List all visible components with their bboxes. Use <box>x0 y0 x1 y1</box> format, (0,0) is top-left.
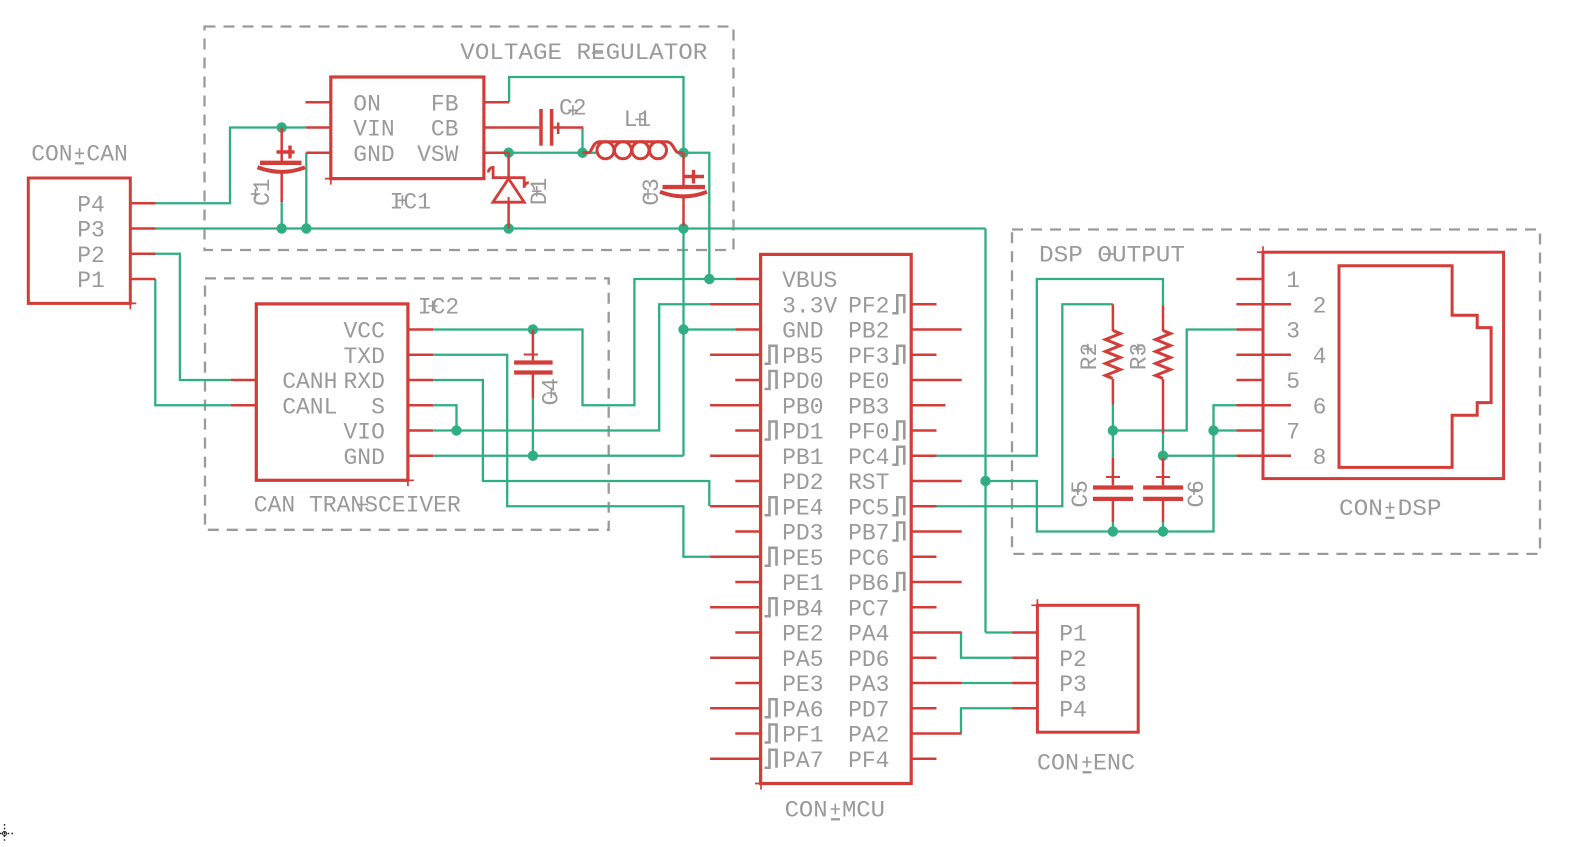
svg-text:VCC: VCC <box>343 319 384 345</box>
svg-text:PB6: PB6 <box>848 571 889 597</box>
pin CON_MCU PF0 <box>911 429 936 432</box>
pin CON_DSP 6 <box>1236 404 1291 407</box>
wire C6 bottom lead <box>1162 522 1164 532</box>
pin CON_DSP 4 <box>1236 354 1291 357</box>
svg-text:P1: P1 <box>77 268 105 294</box>
wire CANH net: CON-CAN P2 to IC2 CANH <box>156 254 231 380</box>
pin CON_MCU PB1 <box>710 455 761 458</box>
junction DSPA R2/C5 <box>1108 425 1118 435</box>
connector CON_DSP jack outline <box>1339 266 1491 468</box>
svg-text:2: 2 <box>1313 293 1327 319</box>
pin CON_DSP 3 <box>1236 328 1263 331</box>
pin CON_MCU PF3 <box>911 354 936 357</box>
pin CON_MCU PF1 <box>735 732 760 735</box>
pin CON_MCU PA7 <box>710 758 761 761</box>
svg-text:S: S <box>371 394 385 420</box>
junction VBUS/C4 <box>528 324 538 334</box>
op-amp IC1 regulator box <box>331 77 484 179</box>
svg-text:PC4: PC4 <box>848 445 889 471</box>
wire PC5 net: MCU PC5 to R2 top <box>937 304 1113 506</box>
pin CON_MCU PB2 <box>911 328 962 331</box>
pin IC2 TXD <box>408 354 433 357</box>
svg-text:GND: GND <box>782 319 823 345</box>
wire FB net: IC1 FB loop to L1 output <box>509 77 683 153</box>
pin CON_MCU PA6 <box>710 707 761 710</box>
svg-text:P1: P1 <box>1059 622 1087 648</box>
svg-text:PD3: PD3 <box>782 521 823 547</box>
svg-text:CANH: CANH <box>282 369 337 395</box>
pin IC1 VIN <box>306 126 331 129</box>
svg-text:P3: P3 <box>1059 672 1087 698</box>
junction DSPB R3/C6 <box>1158 451 1168 461</box>
pin CON_MCU PE1 <box>735 581 760 584</box>
wire DSPB net: R3 bottom / C6 / RJ45 pin8 <box>1162 433 1164 458</box>
svg-text:PA6: PA6 <box>782 697 823 723</box>
pin CON_MCU PA5 <box>710 657 761 660</box>
svg-text:PF1: PF1 <box>782 723 823 749</box>
svg-text:VIN: VIN <box>353 117 394 143</box>
capacitor C6 <box>1162 458 1165 485</box>
sheet frame origin cross <box>0 824 13 843</box>
wire ENC P2 net: MCU PA4 <box>961 633 1012 658</box>
svg-text:PC7: PC7 <box>848 596 889 622</box>
voltage regulator dashed frame <box>205 27 734 251</box>
wire ENC P4 net: MCU PA2 <box>961 708 1012 733</box>
svg-text:RXD: RXD <box>343 369 384 395</box>
pin IC2 RXD <box>408 379 433 382</box>
pin CON_ENC P2 <box>1012 657 1037 660</box>
svg-text:VOLTAGE REGULATOR: VOLTAGE REGULATOR <box>460 40 707 66</box>
pin IC1 FB <box>484 101 509 104</box>
pin CON_MCU VBUS <box>735 278 760 281</box>
svg-text:PD0: PD0 <box>782 369 823 395</box>
dsp output dashed frame <box>1012 230 1540 554</box>
svg-text:PB4: PB4 <box>782 596 823 622</box>
wire CANL net: CON-CAN P1 to IC2 CANL <box>155 279 231 405</box>
junction S/VIO <box>451 425 461 435</box>
wire C4 net segments <box>532 399 534 456</box>
pin CON_MCU PD7 <box>911 707 936 710</box>
svg-text:FB: FB <box>431 91 459 117</box>
wire PC4 net: MCU PC4 to R3 top <box>937 279 1164 456</box>
svg-text:4: 4 <box>1313 344 1327 370</box>
op-amp IC2 transceiver box <box>256 304 408 480</box>
junction GND/DSP branch <box>980 476 990 486</box>
svg-text:P3: P3 <box>77 218 105 244</box>
pin CON_ENC P1 <box>1012 631 1037 634</box>
junction VSW/C2 <box>577 148 587 158</box>
connector CON_MCU box <box>761 254 912 783</box>
resistor R2 <box>1112 304 1115 331</box>
wire GND net: MCU GND pin <box>684 328 736 330</box>
pin CON_MCU PE5 <box>710 556 761 559</box>
svg-text:PB7: PB7 <box>848 521 889 547</box>
pin IC1 ON <box>306 101 331 104</box>
svg-text:PE1: PE1 <box>782 571 823 597</box>
pin CON_MCU PA2 <box>911 732 962 735</box>
svg-text:CANL: CANL <box>282 394 337 420</box>
svg-text:PA4: PA4 <box>848 622 889 648</box>
svg-text:PB2: PB2 <box>848 319 889 345</box>
svg-text:8: 8 <box>1313 445 1327 471</box>
svg-text:VSW: VSW <box>417 142 459 168</box>
wire GND net: branch to DSP caps <box>986 405 1237 531</box>
inductor L1 <box>583 142 684 153</box>
pin CON_MCU PB0 <box>710 404 761 407</box>
pin CON_ENC P4 <box>1012 707 1037 710</box>
pin CON_MCU PC5 <box>911 505 936 508</box>
wire GND net: vertical down right of MCU <box>984 229 986 633</box>
pin IC2 VCC <box>408 328 433 331</box>
pin CON_MCU GND <box>735 328 760 331</box>
svg-text:C5: C5 <box>1068 480 1094 508</box>
svg-text:TXD: TXD <box>343 344 384 370</box>
svg-text:PF0: PF0 <box>848 420 889 446</box>
svg-text:PE2: PE2 <box>782 622 823 648</box>
connector CON_CAN box <box>28 178 130 303</box>
pin CON_DSP 1 <box>1236 278 1263 281</box>
svg-text:PB0: PB0 <box>782 394 823 420</box>
svg-text:P2: P2 <box>1059 647 1087 673</box>
wire DSPA net: R2 bottom / C5 / RJ45 pin3 <box>1112 405 1114 459</box>
svg-text:1: 1 <box>1286 268 1300 294</box>
pin CON_MCU PD3 <box>735 530 760 533</box>
svg-text:3.3V: 3.3V <box>782 293 837 319</box>
pin CON_MCU PA4 <box>911 631 962 634</box>
svg-text:PD6: PD6 <box>848 647 889 673</box>
svg-text:VIO: VIO <box>343 420 384 446</box>
junction GND/RJ45 pin7 <box>1208 425 1218 435</box>
wire GND net: IC1 GND pin drop <box>305 153 307 229</box>
svg-text:C3: C3 <box>639 178 665 206</box>
junction GND/IC1 <box>301 223 311 233</box>
pin CON_MCU RST <box>911 480 962 483</box>
capacitor C5 <box>1112 458 1115 485</box>
junction VBUS/MCU pin <box>704 274 714 284</box>
pin CON_MCU PB3 <box>911 404 945 407</box>
svg-text:CB: CB <box>431 117 459 143</box>
svg-text:PB1: PB1 <box>782 445 823 471</box>
junction GND/C3 <box>678 223 688 233</box>
svg-text:PB5: PB5 <box>782 344 823 370</box>
pin CON_CAN P3 <box>130 227 155 230</box>
wire VSW net: C2 drop <box>581 128 583 153</box>
pin IC1 CB <box>484 126 539 129</box>
pin CON_MCU PD6 <box>911 657 936 660</box>
svg-text:PD7: PD7 <box>848 697 889 723</box>
svg-text:GND: GND <box>343 445 384 471</box>
wire VOUT net: L1 to C3 junction, to MCU VBUS <box>684 153 710 279</box>
resistor R3 <box>1162 306 1165 332</box>
capacitor C1 <box>280 128 283 162</box>
svg-text:PE4: PE4 <box>782 495 823 521</box>
svg-text:P4: P4 <box>1059 697 1087 723</box>
svg-text:3: 3 <box>1286 319 1300 345</box>
pin CON_DSP 7 <box>1236 429 1263 432</box>
svg-text:DSP OUTPUT: DSP OUTPUT <box>1039 243 1185 269</box>
junction VOUT/L1/C3 <box>678 148 688 158</box>
pin IC2 VIO <box>408 429 433 432</box>
junction VIN/C1 <box>277 122 287 132</box>
svg-text:RST: RST <box>848 470 889 496</box>
diode D1 zener <box>507 153 510 178</box>
pin IC2 CANH <box>231 379 256 382</box>
pin CON_MCU PB7 <box>911 530 962 533</box>
svg-text:PF3: PF3 <box>848 344 889 370</box>
connector CON_DSP box <box>1263 252 1504 478</box>
svg-text:PF4: PF4 <box>848 748 889 774</box>
svg-text:PE0: PE0 <box>848 369 889 395</box>
pin IC2 S <box>408 404 433 407</box>
wire C5 bottom lead <box>1112 522 1114 532</box>
svg-text:PD2: PD2 <box>782 470 823 496</box>
pin CON_MCU PC7 <box>911 606 936 609</box>
capacitor C4 <box>532 330 535 361</box>
wire 3.3V net: MCU 3.3V to IC2 VIO and S <box>433 304 710 430</box>
pin CON_MCU PF2 <box>911 303 936 306</box>
wire VBUS net: MCU VBUS to IC2 VCC <box>709 278 735 280</box>
pin CON_MCU PD0 <box>735 379 760 382</box>
pin CON_MCU PD2 <box>735 480 760 483</box>
svg-text:6: 6 <box>1313 394 1327 420</box>
svg-text:PA7: PA7 <box>782 748 823 774</box>
wire TXD net: IC2 TXD to MCU PE5 <box>433 355 710 557</box>
junction GND/D1 <box>503 223 513 233</box>
junction GND/C1 <box>277 223 287 233</box>
svg-text:R2: R2 <box>1077 343 1103 371</box>
svg-text:VBUS: VBUS <box>782 268 837 294</box>
pin CON_MCU PE2 <box>735 631 760 634</box>
svg-text:P2: P2 <box>77 243 105 269</box>
svg-text:R3: R3 <box>1127 343 1153 371</box>
svg-text:PE3: PE3 <box>782 672 823 698</box>
pin CON_CAN P2 <box>130 253 155 256</box>
svg-text:P4: P4 <box>77 192 105 218</box>
svg-text:PC6: PC6 <box>848 546 889 572</box>
pin CON_MCU PE3 <box>735 682 760 685</box>
wire ENC P3 net: MCU PA3 <box>962 682 1012 684</box>
junction GND/C4 <box>528 451 538 461</box>
svg-text:IC2: IC2 <box>418 295 459 321</box>
svg-text:PD1: PD1 <box>782 420 823 446</box>
pin CON_DSP 5 <box>1236 379 1263 382</box>
wire VSW net: VSW pin to C2/L1 <box>509 152 599 154</box>
junction GND/C6 <box>1158 526 1168 536</box>
pin CON_CAN P4 <box>130 202 155 205</box>
svg-text:PA2: PA2 <box>848 723 889 749</box>
pin IC1 VSW <box>484 152 509 155</box>
pin CON_MCU PC6 <box>911 556 936 559</box>
svg-text:PE5: PE5 <box>782 546 823 572</box>
capacitor C2 <box>539 109 543 146</box>
wire GND net: MCU GND vertical <box>682 229 684 456</box>
junction GND/MCU pin <box>678 324 688 334</box>
junction VSW/D1 <box>503 148 513 158</box>
wire GND net: long horizontal from CON-CAN P3 to DSP area <box>156 227 986 229</box>
pin CON_MCU PD1 <box>735 429 760 432</box>
pin IC2 CANL <box>231 404 256 407</box>
svg-text:PC5: PC5 <box>848 495 889 521</box>
wire 3.3V net: IC2 S jog <box>433 405 456 430</box>
pin CON_DSP 8 <box>1236 455 1291 458</box>
svg-text:PB3: PB3 <box>848 394 889 420</box>
wire GND net: to CON-ENC P1 <box>986 631 1013 633</box>
svg-text:ON: ON <box>353 91 381 117</box>
pin CON_CAN P1 <box>130 278 155 281</box>
svg-text:7: 7 <box>1286 420 1300 446</box>
wire GND net: IC2 GND row <box>433 455 683 457</box>
pin CON_MCU PB5 <box>710 354 761 357</box>
pin CON_MCU PE4 <box>710 505 761 508</box>
pin IC2 GND <box>408 455 433 458</box>
pin CON_MCU PF4 <box>911 758 936 761</box>
pin CON_MCU 3.3V <box>710 303 761 306</box>
pin CON_MCU PA3 <box>911 682 962 685</box>
can transceiver dashed frame <box>205 278 609 529</box>
svg-text:PF2: PF2 <box>848 293 889 319</box>
pin IC1 GND <box>306 152 331 155</box>
svg-text:5: 5 <box>1286 369 1300 395</box>
svg-text:IC1: IC1 <box>390 190 431 216</box>
svg-text:C6: C6 <box>1184 480 1210 508</box>
wire GND net: RJ45 pin7 branch <box>1214 429 1237 431</box>
junction GND/C5 <box>1108 526 1118 536</box>
pin CON_DSP 2 <box>1236 303 1291 306</box>
capacitor C3 <box>682 153 685 185</box>
svg-text:PA3: PA3 <box>848 672 889 698</box>
svg-text:PA5: PA5 <box>782 647 823 673</box>
wire RXD net: IC2 RXD to MCU PE4 <box>433 380 709 506</box>
pin CON_ENC P3 <box>1012 682 1037 685</box>
connector CON_ENC box <box>1037 605 1138 732</box>
svg-text:GND: GND <box>353 142 394 168</box>
wire VIN net: P4 to IC1 VIN and C1 <box>156 128 307 204</box>
pin CON_MCU PB4 <box>710 606 761 609</box>
pin CON_MCU PB6 <box>911 581 962 584</box>
pin CON_MCU PE0 <box>911 379 962 382</box>
svg-text:C1: C1 <box>250 178 276 206</box>
svg-text:CAN TRANSCEIVER: CAN TRANSCEIVER <box>254 493 461 519</box>
pin CON_MCU PC4 <box>911 455 936 458</box>
